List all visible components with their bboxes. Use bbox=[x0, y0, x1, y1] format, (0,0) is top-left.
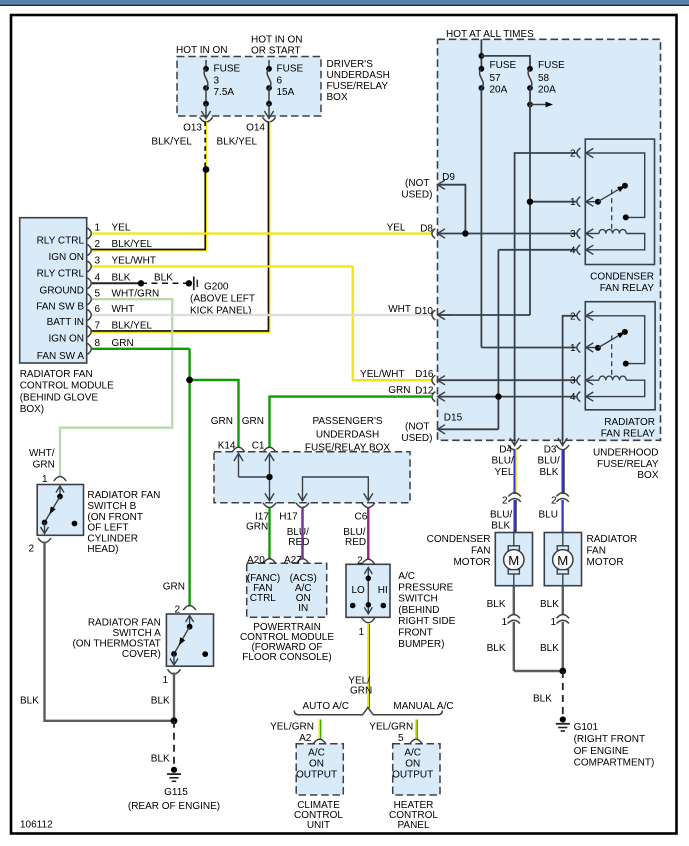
svg-text:YEL: YEL bbox=[112, 223, 131, 234]
top title bar bbox=[0, 0, 689, 6]
svg-text:1: 1 bbox=[42, 474, 48, 485]
svg-text:GRN: GRN bbox=[112, 338, 134, 349]
svg-text:1: 1 bbox=[358, 627, 364, 638]
svg-text:WHT: WHT bbox=[112, 304, 135, 315]
svg-text:1: 1 bbox=[550, 617, 556, 628]
radiator relay coil link (dashed) bbox=[611, 336, 613, 378]
svg-text:PASSENGER'S: PASSENGER'S bbox=[312, 416, 382, 427]
connector O13 bbox=[183, 117, 212, 133]
svg-text:SWITCH: SWITCH bbox=[398, 594, 437, 605]
wire YEL/GRN to heater control 5 bbox=[369, 720, 417, 745]
condenser relay pin 3 bbox=[570, 229, 599, 241]
svg-text:GRN: GRN bbox=[163, 582, 185, 593]
svg-text:BLK: BLK bbox=[540, 599, 559, 610]
heater control panel box bbox=[389, 744, 440, 831]
wire BLK/YEL from O13 to module pin 2 bbox=[91, 122, 207, 252]
wire YEL module pin 1 to D8 bbox=[92, 223, 433, 234]
wire WHT module pin 6 to D10 bbox=[92, 304, 433, 315]
svg-text:UNDERDASH: UNDERDASH bbox=[327, 70, 390, 81]
condenser relay coil bbox=[599, 229, 645, 249]
svg-text:BLU: BLU bbox=[539, 509, 558, 520]
wire BLU/RED H17 to PCM A27 bbox=[301, 508, 304, 560]
svg-text:5: 5 bbox=[95, 288, 101, 299]
connector C1 bbox=[242, 416, 276, 452]
radiator relay pin 4 bbox=[570, 392, 599, 404]
wire BLU/YEL D4 to connector bbox=[515, 449, 517, 494]
connector D3 bbox=[538, 432, 570, 478]
svg-text:106112: 106112 bbox=[20, 820, 53, 831]
svg-text:DRIVER'S: DRIVER'S bbox=[327, 59, 374, 70]
svg-text:3: 3 bbox=[570, 229, 576, 240]
svg-text:1: 1 bbox=[570, 197, 576, 208]
svg-text:RADIATOR FAN: RADIATOR FAN bbox=[88, 617, 161, 628]
svg-text:BOX): BOX) bbox=[20, 404, 44, 415]
svg-text:LO: LO bbox=[352, 585, 366, 596]
radiator fan switch A box bbox=[72, 614, 213, 666]
svg-text:A/C: A/C bbox=[404, 748, 421, 759]
svg-text:FUSE/RELAY: FUSE/RELAY bbox=[597, 459, 659, 470]
radiator fan control module box bbox=[20, 218, 114, 416]
svg-text:(REAR OF ENGINE): (REAR OF ENGINE) bbox=[128, 801, 220, 812]
inline connector 1 (condenser) bbox=[501, 615, 520, 628]
wire BLK dashed to G101 bbox=[533, 671, 563, 715]
wire condenser relay pin2 to D4 bbox=[515, 153, 577, 440]
auto/manual split brace bbox=[294, 701, 453, 715]
svg-text:BLK/YEL: BLK/YEL bbox=[217, 137, 258, 148]
module pin 6 BATT IN bbox=[47, 304, 135, 328]
svg-text:OF LEFT: OF LEFT bbox=[87, 523, 128, 534]
svg-text:D10: D10 bbox=[415, 306, 434, 317]
svg-text:BLK: BLK bbox=[487, 599, 506, 610]
svg-text:6: 6 bbox=[95, 304, 101, 315]
wire GRN C1 to D12 bbox=[270, 385, 434, 447]
svg-text:D12: D12 bbox=[415, 386, 434, 397]
svg-text:A20: A20 bbox=[247, 555, 265, 566]
svg-text:FAN SW B: FAN SW B bbox=[36, 301, 84, 312]
connector C6 bbox=[343, 503, 375, 548]
passenger box internal K14-C1-I17 bbox=[234, 454, 274, 501]
svg-text:H17: H17 bbox=[279, 511, 298, 522]
svg-text:WHT: WHT bbox=[388, 304, 411, 315]
pressure switch pin 1 bbox=[358, 618, 374, 638]
svg-text:FAN RELAY: FAN RELAY bbox=[600, 283, 655, 294]
svg-text:K14: K14 bbox=[218, 441, 236, 452]
svg-text:(ON THERMOSTAT: (ON THERMOSTAT bbox=[72, 638, 160, 649]
svg-text:CONDENSER: CONDENSER bbox=[590, 272, 654, 283]
svg-text:HOT IN ON: HOT IN ON bbox=[176, 45, 227, 56]
wire GRN module pin 8 to switch A and K14 bbox=[92, 349, 239, 616]
svg-text:USED): USED) bbox=[401, 190, 432, 201]
svg-text:M: M bbox=[508, 553, 519, 568]
wire BLK module pin 4 ground bbox=[92, 273, 189, 287]
connector D16 bbox=[415, 369, 445, 385]
svg-text:RADIATOR FAN: RADIATOR FAN bbox=[20, 369, 93, 380]
switch A pin 2 bbox=[183, 606, 195, 611]
label HOT IN ON (fuse 3) bbox=[176, 45, 227, 56]
svg-text:4: 4 bbox=[570, 245, 576, 256]
fuse 58 branch feed arrow bbox=[527, 102, 553, 108]
svg-text:5: 5 bbox=[398, 733, 404, 744]
svg-text:GRN: GRN bbox=[246, 522, 268, 533]
wire BLU/BLK D3 to connector bbox=[563, 449, 565, 494]
svg-text:3: 3 bbox=[95, 256, 101, 267]
svg-text:3: 3 bbox=[570, 376, 576, 387]
wire BLK dashed to G115 bbox=[151, 721, 174, 765]
junction on GRN wire bbox=[186, 377, 193, 384]
PCM pin A27 bbox=[284, 555, 309, 566]
a/c pressure switch box bbox=[346, 564, 456, 650]
svg-text:GRN: GRN bbox=[388, 385, 410, 396]
svg-text:58: 58 bbox=[538, 73, 550, 84]
svg-text:A2: A2 bbox=[299, 733, 312, 744]
radiator relay pin 2 bbox=[570, 311, 599, 323]
svg-text:GRN: GRN bbox=[33, 460, 55, 471]
radiator relay pin 1 bbox=[570, 343, 599, 355]
svg-text:WHT/: WHT/ bbox=[29, 448, 55, 459]
connector K14 bbox=[211, 416, 245, 452]
radiator fan relay U2 bbox=[585, 302, 655, 440]
svg-text:PRESSURE: PRESSURE bbox=[398, 582, 453, 593]
svg-text:RADIATOR: RADIATOR bbox=[604, 417, 655, 428]
svg-text:BLK: BLK bbox=[151, 696, 170, 707]
svg-text:BLK: BLK bbox=[20, 696, 39, 707]
inline connector 2 (radiator) bbox=[551, 493, 569, 507]
svg-text:O14: O14 bbox=[246, 123, 265, 134]
svg-text:UNDERHOOD: UNDERHOOD bbox=[593, 447, 659, 458]
svg-text:1: 1 bbox=[501, 617, 507, 628]
wire BLU connector to radiator motor bbox=[539, 500, 563, 533]
svg-text:BLK: BLK bbox=[491, 521, 510, 532]
wire WHT/GRN module pin 5 to radiator fan switch B bbox=[29, 299, 172, 485]
wire D8 row to condenser relay pin 3 bbox=[438, 233, 578, 235]
svg-text:BLU/: BLU/ bbox=[492, 456, 514, 467]
svg-text:MOTOR: MOTOR bbox=[453, 557, 490, 568]
connector H17 bbox=[279, 503, 309, 548]
wire BLK switch A to ground node bbox=[151, 673, 174, 721]
connector I17 bbox=[246, 503, 276, 533]
svg-text:15A: 15A bbox=[277, 87, 295, 98]
climate control unit box bbox=[294, 744, 343, 831]
svg-text:(NOT: (NOT bbox=[405, 422, 429, 433]
svg-text:CONDENSER: CONDENSER bbox=[427, 534, 491, 545]
svg-text:BOX: BOX bbox=[637, 470, 658, 481]
heater control pin 5 bbox=[410, 739, 422, 744]
svg-text:YEL/WHT: YEL/WHT bbox=[360, 369, 404, 380]
svg-text:BLK: BLK bbox=[487, 643, 506, 654]
svg-text:IGN ON: IGN ON bbox=[48, 334, 84, 345]
svg-text:BLK: BLK bbox=[540, 643, 559, 654]
svg-text:UNIT: UNIT bbox=[307, 820, 330, 831]
junction switches ground bbox=[171, 717, 178, 724]
wire BLK radiator lower bbox=[540, 622, 563, 671]
fuse F3 7.5A bbox=[201, 60, 240, 119]
wire D16 row to radiator relay pin 3 bbox=[438, 379, 578, 381]
condenser relay switch bbox=[595, 153, 645, 220]
wire BLK condenser lower bbox=[487, 622, 563, 671]
svg-text:1: 1 bbox=[570, 343, 576, 354]
svg-text:HOT AT ALL TIMES: HOT AT ALL TIMES bbox=[446, 29, 534, 40]
svg-text:2: 2 bbox=[28, 544, 34, 555]
svg-text:CYLINDER: CYLINDER bbox=[87, 533, 138, 544]
svg-text:RADIATOR FAN: RADIATOR FAN bbox=[87, 490, 160, 501]
condenser relay pin 1 bbox=[570, 197, 599, 209]
wire radiator relay pin2 to D3 bbox=[563, 316, 577, 440]
svg-text:GRN: GRN bbox=[350, 686, 372, 697]
condenser relay pin 4 bbox=[570, 245, 599, 256]
junction fuse58/relay1 bbox=[527, 199, 533, 205]
svg-text:D8: D8 bbox=[420, 224, 433, 235]
wire YEL/GRN to climate control A2 bbox=[270, 720, 321, 745]
svg-text:FUSE: FUSE bbox=[214, 64, 241, 75]
svg-text:D3: D3 bbox=[544, 444, 557, 455]
svg-text:G200: G200 bbox=[204, 282, 229, 293]
wire YEL/WHT module pin 3 to D16 bbox=[92, 267, 433, 381]
svg-text:FAN: FAN bbox=[587, 546, 606, 557]
fuse F6 15A bbox=[264, 60, 303, 119]
svg-text:FRONT: FRONT bbox=[398, 628, 432, 639]
module pin 7 IGN ON bbox=[48, 321, 152, 345]
svg-text:C1: C1 bbox=[252, 441, 265, 452]
svg-text:YEL/GRN: YEL/GRN bbox=[369, 722, 413, 733]
svg-text:6: 6 bbox=[277, 76, 283, 87]
svg-text:FAN SW A: FAN SW A bbox=[37, 351, 85, 362]
svg-text:BOX: BOX bbox=[327, 92, 348, 103]
svg-text:HEAD): HEAD) bbox=[87, 544, 118, 555]
svg-text:YEL: YEL bbox=[387, 223, 406, 234]
svg-text:FAN RELAY: FAN RELAY bbox=[601, 429, 656, 440]
svg-text:AUTO A/C: AUTO A/C bbox=[303, 701, 350, 712]
junction relay coils / D12 / D15 bbox=[495, 393, 501, 399]
junction D9/D8 bbox=[462, 230, 468, 236]
wire BLK/YEL from O14 to module pin 7 bbox=[91, 122, 270, 333]
wire fuse 58 to condenser relay pin 1 and D10 bbox=[438, 88, 578, 315]
pressure switch contacts bbox=[350, 568, 388, 614]
connector D15 not used bbox=[401, 413, 498, 445]
svg-text:G101: G101 bbox=[574, 722, 599, 733]
svg-text:YEL/WHT: YEL/WHT bbox=[112, 256, 156, 267]
svg-text:SWITCH B: SWITCH B bbox=[87, 501, 136, 512]
svg-text:D16: D16 bbox=[415, 369, 434, 380]
svg-text:2: 2 bbox=[570, 311, 576, 322]
connector D4 bbox=[492, 432, 522, 478]
module pin 4 GROUND bbox=[40, 273, 131, 297]
module pin 1 RLY CTRL bbox=[37, 223, 131, 247]
underhood fuse/relay box bbox=[438, 39, 661, 481]
connector O14 bbox=[246, 117, 275, 133]
module pin 8 FAN SW A bbox=[37, 338, 134, 362]
condenser relay coil link (dashed) bbox=[611, 190, 613, 232]
svg-text:2: 2 bbox=[95, 239, 101, 250]
svg-text:FUSE/RELAY BOX: FUSE/RELAY BOX bbox=[305, 442, 391, 453]
svg-text:7: 7 bbox=[95, 321, 101, 332]
svg-text:FAN: FAN bbox=[471, 546, 490, 557]
svg-text:BLU/: BLU/ bbox=[490, 509, 512, 520]
inline connector 2 (condenser) bbox=[502, 493, 521, 507]
ground splice G200 bbox=[186, 277, 255, 317]
radiator fan switch B box bbox=[37, 485, 160, 556]
svg-text:MANUAL A/C: MANUAL A/C bbox=[393, 701, 453, 712]
svg-text:OF ENGINE: OF ENGINE bbox=[574, 746, 629, 757]
diagram number 106112 bbox=[20, 820, 53, 831]
svg-text:OUTPUT: OUTPUT bbox=[392, 769, 433, 780]
svg-text:COVER): COVER) bbox=[122, 649, 161, 660]
connector D12 bbox=[415, 386, 445, 402]
wire BLK switch B to ground node bbox=[20, 542, 174, 721]
radiator relay pin 3 bbox=[570, 375, 599, 387]
svg-text:SWITCH A: SWITCH A bbox=[112, 628, 161, 639]
svg-text:D15: D15 bbox=[444, 413, 463, 424]
svg-text:BLK: BLK bbox=[151, 754, 170, 765]
svg-text:3: 3 bbox=[214, 76, 220, 87]
svg-text:RLY CTRL: RLY CTRL bbox=[37, 269, 85, 280]
condenser fan relay U1 bbox=[585, 139, 654, 294]
switch A contacts bbox=[170, 616, 208, 666]
svg-text:G115: G115 bbox=[164, 787, 188, 798]
svg-text:OUTPUT: OUTPUT bbox=[296, 769, 337, 780]
driver's underdash fuse/relay box bbox=[177, 57, 390, 117]
svg-text:OR START: OR START bbox=[251, 46, 301, 57]
svg-text:8: 8 bbox=[95, 338, 101, 349]
wire D12 row to radiator relay pin 4 bbox=[438, 396, 578, 398]
svg-text:FUSE: FUSE bbox=[277, 64, 304, 75]
svg-text:1: 1 bbox=[95, 223, 101, 234]
svg-text:FUSE: FUSE bbox=[538, 60, 565, 71]
switch B contacts bbox=[41, 486, 78, 534]
svg-text:BLU/: BLU/ bbox=[538, 456, 560, 467]
svg-text:2: 2 bbox=[357, 556, 363, 567]
module pin 3 RLY CTRL bbox=[37, 256, 156, 280]
svg-text:4: 4 bbox=[95, 273, 101, 284]
svg-text:BLK: BLK bbox=[154, 273, 173, 284]
svg-text:FUSE/RELAY: FUSE/RELAY bbox=[327, 81, 389, 92]
switch B pin 2 bbox=[28, 538, 51, 555]
svg-text:A/C: A/C bbox=[308, 748, 325, 759]
svg-text:BLK: BLK bbox=[112, 273, 131, 284]
ground G115 bbox=[128, 767, 220, 812]
wire GRN I17 to PCM A20 bbox=[268, 508, 270, 560]
connector D10 bbox=[415, 306, 452, 320]
svg-text:BUMPER): BUMPER) bbox=[398, 639, 444, 650]
svg-text:BLK/YEL: BLK/YEL bbox=[112, 321, 153, 332]
module pin 5 FAN SW B bbox=[36, 288, 159, 312]
svg-text:20A: 20A bbox=[490, 85, 508, 96]
svg-text:UNDERDASH: UNDERDASH bbox=[316, 429, 379, 440]
svg-text:4: 4 bbox=[570, 392, 576, 403]
passenger's underdash fuse/relay box bbox=[214, 416, 410, 503]
label HOT IN ON OR START (fuse 6) bbox=[251, 35, 302, 57]
svg-text:FUSE: FUSE bbox=[490, 60, 517, 71]
svg-text:C6: C6 bbox=[355, 511, 368, 522]
svg-text:GRN: GRN bbox=[211, 416, 233, 427]
svg-text:GRN: GRN bbox=[242, 416, 264, 427]
splice on O13 wire bbox=[203, 166, 210, 173]
svg-text:7.5A: 7.5A bbox=[214, 87, 235, 98]
junction motors ground bbox=[559, 668, 566, 675]
wire BLK radiator motor to ground node bbox=[540, 586, 563, 616]
svg-text:YEL/GRN: YEL/GRN bbox=[270, 722, 314, 733]
battery feed wire to fuses bbox=[479, 39, 531, 69]
svg-text:A/C: A/C bbox=[398, 571, 415, 582]
radiator fan motor M2 bbox=[544, 533, 637, 586]
svg-text:USED): USED) bbox=[401, 433, 432, 444]
radiator relay switch bbox=[595, 316, 645, 367]
svg-text:57: 57 bbox=[490, 73, 502, 84]
svg-text:RLY CTRL: RLY CTRL bbox=[37, 236, 85, 247]
svg-text:(NOT: (NOT bbox=[405, 178, 429, 189]
svg-text:BLK: BLK bbox=[540, 467, 559, 478]
svg-text:IN: IN bbox=[298, 603, 308, 614]
svg-text:(RIGHT FRONT: (RIGHT FRONT bbox=[574, 734, 645, 745]
connector D9 not used bbox=[401, 172, 465, 234]
wire YEL/GRN pressure switch to A/C split bbox=[348, 624, 372, 708]
svg-text:D9: D9 bbox=[442, 172, 455, 183]
wire BLK condenser motor to ground node bbox=[487, 586, 514, 616]
svg-text:(ABOVE LEFT: (ABOVE LEFT bbox=[190, 294, 255, 305]
wire condenser relay pin4 to D12 node bbox=[498, 250, 577, 429]
switch B pin 1 bbox=[54, 477, 66, 482]
svg-text:YEL: YEL bbox=[495, 467, 514, 478]
svg-text:BATT IN: BATT IN bbox=[47, 317, 84, 328]
condenser relay pin 2 bbox=[570, 148, 599, 160]
svg-text:RADIATOR: RADIATOR bbox=[587, 534, 638, 545]
svg-text:CONTROL MODULE: CONTROL MODULE bbox=[20, 381, 114, 392]
svg-text:(ON FRONT: (ON FRONT bbox=[87, 512, 143, 523]
pressure switch pin 2 bbox=[357, 556, 374, 567]
svg-text:CTRL: CTRL bbox=[250, 593, 277, 604]
powertrain control module box bbox=[240, 563, 334, 663]
svg-text:2: 2 bbox=[570, 149, 576, 160]
svg-text:M: M bbox=[557, 553, 568, 568]
PCM pin A20 bbox=[247, 555, 276, 566]
inline connector 1 (radiator) bbox=[550, 615, 569, 628]
label HOT AT ALL TIMES bbox=[446, 29, 534, 40]
svg-text:GROUND: GROUND bbox=[40, 286, 84, 297]
svg-text:ON: ON bbox=[309, 758, 324, 769]
wire fuse 57 to radiator relay pin 1 bbox=[481, 88, 577, 348]
module pin 2 IGN ON bbox=[48, 239, 152, 263]
svg-text:IGN ON: IGN ON bbox=[48, 252, 84, 263]
svg-text:RED: RED bbox=[345, 537, 366, 548]
svg-text:O13: O13 bbox=[183, 123, 202, 134]
svg-text:(BEHIND: (BEHIND bbox=[398, 605, 439, 616]
fuse F58 20A bbox=[527, 60, 565, 96]
svg-text:BLK: BLK bbox=[533, 694, 552, 705]
svg-text:ON: ON bbox=[405, 758, 420, 769]
svg-text:RIGHT SIDE: RIGHT SIDE bbox=[398, 616, 455, 627]
climate control pin A2 bbox=[313, 739, 325, 744]
svg-text:20A: 20A bbox=[538, 85, 556, 96]
ground G101 bbox=[556, 716, 655, 768]
wire BLU/BLK connector to condenser motor bbox=[490, 500, 516, 533]
svg-text:MOTOR: MOTOR bbox=[587, 557, 624, 568]
svg-text:RED: RED bbox=[288, 537, 309, 548]
fuse F57 20A bbox=[479, 60, 517, 96]
wire BLU/RED C6 to pressure switch bbox=[367, 508, 370, 560]
svg-text:PANEL: PANEL bbox=[397, 820, 429, 831]
svg-text:BLK/YEL: BLK/YEL bbox=[151, 137, 192, 148]
connector D8 bbox=[420, 224, 445, 239]
svg-text:2: 2 bbox=[502, 495, 508, 506]
svg-text:BLK/YEL: BLK/YEL bbox=[112, 239, 153, 250]
svg-text:A27: A27 bbox=[284, 555, 302, 566]
svg-text:HI: HI bbox=[378, 585, 388, 596]
svg-text:COMPARTMENT): COMPARTMENT) bbox=[574, 758, 655, 769]
svg-text:WHT/GRN: WHT/GRN bbox=[112, 288, 160, 299]
radiator relay coil bbox=[599, 376, 645, 397]
svg-text:FLOOR CONSOLE): FLOOR CONSOLE) bbox=[242, 652, 331, 663]
condenser fan motor M1 bbox=[427, 533, 533, 586]
switch A pin 1 bbox=[162, 669, 180, 686]
